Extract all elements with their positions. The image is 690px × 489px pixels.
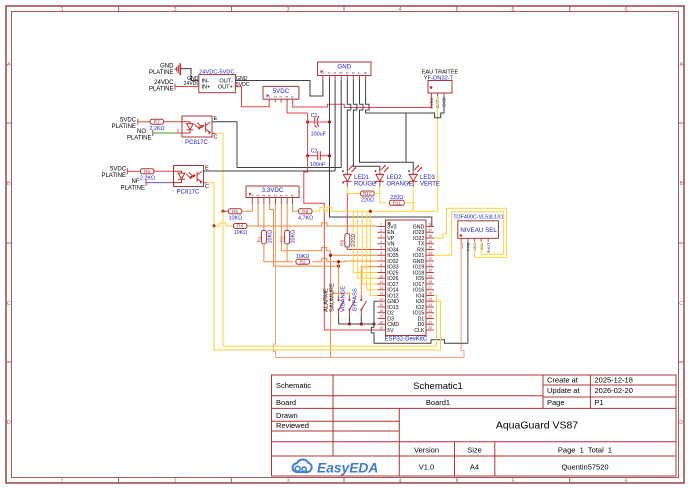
svg-text:1: 1 bbox=[60, 479, 63, 485]
wire EAU GND dark down and left bbox=[406, 97, 444, 163]
wire R7 to opto1 pin1 bbox=[164, 121, 183, 123]
svg-text:27: 27 bbox=[428, 286, 432, 290]
svg-text:31: 31 bbox=[428, 263, 432, 267]
wire yellow bus1 opto1 C to ESP IO4 bbox=[223, 211, 437, 346]
svg-text:37: 37 bbox=[428, 228, 432, 232]
optocoupler U2 PC817C bbox=[173, 166, 210, 196]
svg-text:E: E bbox=[214, 116, 218, 122]
svg-text:8: 8 bbox=[380, 263, 382, 267]
svg-text:NO: NO bbox=[137, 129, 146, 135]
svg-text:24: 24 bbox=[428, 303, 432, 307]
svg-text:17: 17 bbox=[379, 315, 383, 319]
svg-text:26: 26 bbox=[428, 292, 432, 296]
wire GND header pin8 to EAU GND line bbox=[366, 80, 406, 113]
frame row letters bbox=[7, 62, 684, 426]
svg-text:1: 1 bbox=[267, 96, 271, 98]
port 5VDC PLATINE upper bbox=[111, 118, 137, 131]
wire GND PLATINE to IN- bbox=[181, 69, 199, 81]
wire opto1 E to dark bus A bbox=[212, 121, 216, 123]
svg-text:1: 1 bbox=[60, 7, 63, 13]
svg-text:5: 5 bbox=[345, 72, 349, 74]
svg-text:SHUT: SHUT bbox=[486, 242, 491, 253]
svg-text:VIDANGE: VIDANGE bbox=[341, 286, 347, 312]
svg-text:Drawn: Drawn bbox=[276, 411, 298, 420]
svg-text:3: 3 bbox=[279, 96, 283, 98]
wire ESP IO22 to TOF SDA outer loop bbox=[434, 208, 507, 257]
svg-text:6: 6 bbox=[351, 72, 355, 74]
svg-text:38: 38 bbox=[428, 223, 432, 227]
svg-text:A4: A4 bbox=[470, 463, 479, 472]
svg-text:Reviewed: Reviewed bbox=[276, 421, 309, 430]
svg-text:6: 6 bbox=[380, 251, 382, 255]
svg-text:8: 8 bbox=[364, 72, 368, 74]
svg-text:3.3VDC: 3.3VDC bbox=[262, 187, 284, 194]
svg-text:5: 5 bbox=[291, 96, 295, 98]
svg-text:24VDC: 24VDC bbox=[154, 80, 174, 86]
svg-text:33: 33 bbox=[428, 251, 432, 255]
wire 24VDC PLATINE to IN+ bbox=[175, 86, 199, 88]
wire 3.3VDC pin5 down to 5V salmon bus bbox=[273, 204, 275, 358]
wire port to R7 bbox=[138, 121, 150, 123]
wire R5 right to 3.3VDC pin1 bbox=[242, 204, 253, 211]
svg-text:4: 4 bbox=[268, 195, 272, 197]
wire yellow staircase to ESP IO25 bbox=[353, 211, 377, 272]
junction C2 left bbox=[306, 154, 309, 157]
svg-text:PLATINE: PLATINE bbox=[101, 173, 126, 179]
wire switch ALARME riser bbox=[338, 262, 340, 300]
svg-text:3: 3 bbox=[262, 195, 266, 197]
LED3 VERTE bbox=[408, 165, 440, 188]
svg-text:Schematic1: Schematic1 bbox=[413, 381, 463, 392]
wire switch ground bus bbox=[339, 323, 374, 325]
svg-text:R11: R11 bbox=[393, 201, 402, 207]
svg-text:10KΩ: 10KΩ bbox=[234, 230, 248, 236]
junction pin4 chain with ALARME riser bbox=[337, 265, 340, 268]
svg-text:220Ω: 220Ω bbox=[361, 198, 374, 204]
svg-text:3: 3 bbox=[286, 479, 289, 485]
svg-text:220Ω: 220Ω bbox=[351, 234, 357, 247]
svg-text:1: 1 bbox=[380, 223, 382, 227]
ground flag GND PLATINE bbox=[175, 63, 180, 75]
svg-text:9: 9 bbox=[380, 269, 382, 273]
resistor R5 10K bbox=[223, 209, 242, 222]
wire GND header pin3 to dark bus B bbox=[334, 80, 336, 171]
wire GND header pin7 to LED3 bbox=[360, 80, 414, 171]
svg-text:GND: GND bbox=[160, 64, 174, 70]
capacitor C2 100nF bbox=[308, 149, 330, 168]
svg-text:2026-02-20: 2026-02-20 bbox=[595, 386, 633, 395]
wire 3.3VDC pin4 to orange trunk bbox=[270, 204, 339, 266]
svg-text:Board: Board bbox=[276, 398, 296, 407]
svg-text:28: 28 bbox=[428, 280, 432, 284]
wire LED1 to R9 red column bbox=[346, 187, 348, 194]
wire GND header pin6 to LED2 bbox=[353, 80, 379, 171]
svg-text:29: 29 bbox=[428, 274, 432, 278]
svg-text:34: 34 bbox=[428, 246, 432, 250]
wire OUT- dark to GND header pin1 bbox=[235, 80, 323, 96]
svg-text:3: 3 bbox=[286, 7, 289, 13]
svg-text:EAU TRAITÉE: EAU TRAITÉE bbox=[422, 69, 459, 76]
svg-text:NF: NF bbox=[132, 179, 140, 185]
svg-text:V1.0: V1.0 bbox=[419, 463, 434, 472]
svg-text:5VDC: 5VDC bbox=[429, 98, 434, 109]
resistor R8 4.7K bbox=[298, 209, 313, 222]
svg-text:Version: Version bbox=[414, 446, 439, 455]
svg-text:+: + bbox=[181, 117, 184, 122]
svg-text:12: 12 bbox=[379, 286, 383, 290]
svg-text:Schematic: Schematic bbox=[276, 381, 311, 390]
wire switch bus to ESP GND pin14 bbox=[371, 301, 377, 343]
svg-text:18: 18 bbox=[379, 320, 383, 324]
svg-text:ESP32-DevKitC: ESP32-DevKitC bbox=[384, 337, 427, 343]
wire orange trunk vertical bbox=[330, 251, 332, 358]
wire EAU DATA yellow down to signal bus bbox=[437, 97, 439, 212]
svg-text:6: 6 bbox=[624, 479, 627, 485]
wire yellow staircase to ESP IO12 bbox=[370, 211, 377, 295]
port NO PLATINE bbox=[127, 129, 153, 141]
svg-text:5VDC: 5VDC bbox=[120, 118, 137, 124]
svg-text:4: 4 bbox=[398, 479, 401, 485]
header J1 GND bbox=[318, 62, 372, 80]
resistor R6 2.2K bbox=[140, 169, 155, 182]
resistor R7 2.2K bbox=[149, 119, 164, 132]
svg-text:PC817C: PC817C bbox=[177, 190, 200, 196]
capacitor C1 100uF bbox=[308, 113, 330, 137]
resistor R10 220 bbox=[347, 191, 380, 204]
wire R3 bottom joins R2 line bbox=[286, 244, 288, 262]
wire R6 to opto2 pin1 bbox=[154, 170, 174, 172]
wire 3.3VDC pin6 to orange trunk bbox=[281, 204, 330, 251]
resistor R11 220 bbox=[389, 195, 413, 211]
junction C1 right bbox=[328, 120, 331, 123]
svg-text:5: 5 bbox=[511, 479, 514, 485]
svg-text:B: B bbox=[7, 181, 11, 187]
svg-text:4: 4 bbox=[285, 96, 289, 98]
EasyEDA logo bbox=[292, 460, 378, 476]
wire dark bus A horizontal bbox=[237, 167, 341, 169]
svg-text:R6: R6 bbox=[144, 169, 150, 175]
svg-text:2: 2 bbox=[273, 96, 277, 98]
wire R9 bottom to ESP IO34 bbox=[347, 247, 377, 249]
svg-text:1: 1 bbox=[321, 72, 325, 74]
wire NF PLATINE blue to opto2 pin2 bbox=[146, 182, 167, 184]
junction C2 right bbox=[328, 154, 331, 157]
horizontal inner lines bbox=[272, 395, 544, 397]
svg-text:A: A bbox=[7, 62, 11, 68]
wire opto1 C yellow down bbox=[212, 132, 216, 134]
svg-text:EasyEDA: EasyEDA bbox=[317, 461, 378, 476]
svg-text:VERTE: VERTE bbox=[420, 181, 440, 187]
wire OUT+ red to 5VDC header pin1 bbox=[235, 87, 269, 107]
junction C1 left bbox=[306, 120, 309, 123]
svg-text:5: 5 bbox=[511, 7, 514, 13]
wire opto2 E to dark bus B bbox=[204, 170, 208, 172]
svg-text:14: 14 bbox=[379, 297, 383, 301]
wire switch VIDANGE riser bbox=[331, 293, 350, 295]
svg-text:6: 6 bbox=[279, 195, 283, 197]
svg-text:2.2KΩ: 2.2KΩ bbox=[140, 176, 155, 182]
svg-text:7: 7 bbox=[380, 257, 382, 261]
svg-text:R9: R9 bbox=[340, 239, 346, 245]
wire LED2 to R11 bbox=[380, 187, 387, 203]
wire GND header pin5 to LED1 bbox=[347, 80, 351, 171]
svg-text:4: 4 bbox=[398, 7, 401, 13]
svg-text:6: 6 bbox=[624, 7, 627, 13]
svg-text:35: 35 bbox=[428, 240, 432, 244]
svg-text:23: 23 bbox=[428, 309, 432, 313]
svg-text:C: C bbox=[7, 301, 11, 307]
svg-text:C: C bbox=[214, 135, 218, 141]
svg-text:PLATINE: PLATINE bbox=[149, 70, 174, 76]
junction R4 left bbox=[212, 224, 215, 227]
svg-text:3: 3 bbox=[380, 234, 382, 238]
svg-text:5VDC: 5VDC bbox=[110, 167, 127, 173]
resistor R3 10K vertical bbox=[280, 204, 297, 244]
junction signal bus bbox=[369, 210, 372, 213]
svg-text:5: 5 bbox=[380, 246, 382, 250]
svg-text:D: D bbox=[7, 420, 11, 426]
wire NO PLATINE green to opto1 pin2 bbox=[153, 132, 175, 134]
junction switch bus 3 bbox=[372, 322, 375, 325]
switch S3 BYPASS bbox=[353, 288, 367, 324]
LED1 ROUGE bbox=[342, 165, 376, 188]
svg-text:A: A bbox=[679, 62, 683, 68]
svg-text:R5: R5 bbox=[232, 209, 238, 215]
svg-text:2: 2 bbox=[256, 195, 260, 197]
svg-text:NIVEAU SEL: NIVEAU SEL bbox=[460, 227, 497, 234]
svg-text:R4: R4 bbox=[237, 224, 243, 230]
svg-text:21: 21 bbox=[428, 320, 432, 324]
svg-text:ROUGE: ROUGE bbox=[354, 181, 376, 187]
wire R2 right to ESP IO32 bbox=[312, 258, 377, 261]
header J3 3.3VDC bbox=[246, 186, 299, 204]
wire switch BYPASS riser to ESP IO33 bbox=[361, 267, 377, 296]
wire R8 right yellow to signal bus with hop bbox=[312, 207, 370, 211]
svg-text:2: 2 bbox=[173, 7, 176, 13]
svg-text:16: 16 bbox=[379, 309, 383, 313]
svg-text:10KΩ: 10KΩ bbox=[268, 230, 274, 244]
wire yellow staircase to ESP IO14 bbox=[367, 211, 378, 289]
svg-text:PLATINE: PLATINE bbox=[149, 87, 174, 93]
svg-text:20: 20 bbox=[428, 326, 432, 330]
wire GND header pin4 to dark bus A bbox=[340, 80, 342, 168]
svg-text:PLATINE: PLATINE bbox=[127, 136, 152, 142]
svg-text:7: 7 bbox=[358, 72, 362, 74]
svg-text:C: C bbox=[205, 184, 209, 190]
svg-text:GND: GND bbox=[337, 64, 351, 71]
svg-text:2: 2 bbox=[173, 479, 176, 485]
svg-text:LED1: LED1 bbox=[354, 175, 370, 181]
svg-text:5: 5 bbox=[274, 195, 278, 197]
wire 3.3VDC pin8 to R8 bbox=[293, 204, 299, 211]
svg-text:Create at: Create at bbox=[547, 376, 579, 385]
svg-text:3: 3 bbox=[333, 72, 337, 74]
resistor R9 220 vertical bbox=[340, 234, 357, 248]
MCU U4 ESP32-DevKitC bbox=[378, 220, 435, 343]
svg-text:CLK: CLK bbox=[414, 328, 425, 334]
wire GND header pin2 down through caps right side bbox=[329, 80, 331, 171]
svg-text:Board1: Board1 bbox=[426, 398, 450, 407]
svg-text:25: 25 bbox=[428, 297, 432, 301]
wire R1 bottom to R2 left bbox=[264, 244, 293, 262]
resistor R1 10K vertical bbox=[256, 204, 273, 244]
svg-text:7: 7 bbox=[285, 195, 289, 197]
wire 5V red column down to ESP32 5V pin bbox=[304, 113, 378, 330]
svg-text:2: 2 bbox=[380, 228, 382, 232]
svg-text:2: 2 bbox=[328, 72, 332, 74]
svg-text:P1: P1 bbox=[595, 398, 604, 407]
wire ground to ESP pin38 GND bbox=[330, 171, 435, 227]
svg-text:2.2KΩ: 2.2KΩ bbox=[149, 126, 164, 132]
svg-text:19: 19 bbox=[379, 326, 383, 330]
TITLEBLOCK bbox=[272, 375, 677, 476]
resistor R2 10K bbox=[296, 254, 310, 266]
svg-text:2025-12-18: 2025-12-18 bbox=[595, 376, 633, 385]
svg-text:8: 8 bbox=[291, 195, 295, 197]
svg-text:C: C bbox=[679, 301, 683, 307]
wire TOF GND dark to ground bus bbox=[374, 242, 468, 344]
svg-text:D: D bbox=[679, 420, 683, 426]
switch S1 ALARME SAUMURE bbox=[324, 283, 344, 324]
svg-text:30: 30 bbox=[428, 269, 432, 273]
wire signal bus yellow to DATA column bbox=[370, 210, 437, 212]
svg-text:C1: C1 bbox=[311, 113, 318, 119]
svg-text:100uF: 100uF bbox=[311, 131, 327, 137]
wire yellow staircase to ESP IO27 bbox=[362, 211, 377, 284]
svg-text:5V: 5V bbox=[387, 328, 394, 334]
port 5VDC PLATINE lower bbox=[101, 167, 127, 180]
svg-text:Size: Size bbox=[467, 446, 482, 455]
svg-text:C2: C2 bbox=[311, 149, 318, 155]
svg-text:R3: R3 bbox=[280, 236, 286, 242]
port GND PLATINE bbox=[149, 64, 174, 77]
wire orange trunk branch to ESP IO35 bbox=[331, 254, 378, 256]
svg-text:4,7KΩ: 4,7KΩ bbox=[298, 216, 313, 222]
svg-text:100nF: 100nF bbox=[310, 162, 326, 168]
switch S2 VIDANGE bbox=[341, 286, 355, 324]
svg-text:SAUMURE: SAUMURE bbox=[330, 283, 336, 312]
wire 5VDC pin4 to C1 column bbox=[287, 103, 308, 114]
wire opto2 C yellow down bbox=[204, 182, 208, 184]
svg-text:PLATINE: PLATINE bbox=[111, 124, 136, 130]
optocoupler U1 PC817C bbox=[177, 116, 218, 146]
header J2 5VDC bbox=[263, 86, 299, 102]
svg-text:R10: R10 bbox=[363, 191, 372, 197]
svg-text:Quentin57520: Quentin57520 bbox=[561, 463, 608, 472]
svg-text:10KΩ: 10KΩ bbox=[291, 230, 297, 244]
port NF PLATINE bbox=[120, 179, 146, 191]
svg-text:11: 11 bbox=[379, 280, 383, 284]
svg-text:10KΩ: 10KΩ bbox=[228, 216, 242, 222]
junction switch bus 1 bbox=[348, 322, 351, 325]
junction switch bus 2 bbox=[360, 322, 363, 325]
svg-text:R8: R8 bbox=[302, 209, 308, 215]
wire yellow bus2 opto2 C to ESP IO0 bbox=[214, 226, 441, 350]
svg-text:36: 36 bbox=[428, 234, 432, 238]
junction orange trunk IO35 bbox=[329, 254, 332, 257]
svg-text:R7: R7 bbox=[154, 120, 160, 126]
resistor R4 10K bbox=[214, 223, 247, 236]
svg-text:10: 10 bbox=[379, 274, 383, 278]
wire LED3 down to signal bus bbox=[412, 187, 414, 212]
wire R4 right to 3.3VDC pin2 bbox=[247, 223, 378, 226]
LED2 ORANGE bbox=[375, 165, 413, 188]
wire TOF VIN salmon to 5V rail bbox=[276, 242, 465, 358]
svg-text:15: 15 bbox=[379, 303, 383, 307]
converter module U3 24VDC-5VDC bbox=[199, 70, 236, 93]
svg-text:AquaGuard VS87: AquaGuard VS87 bbox=[496, 420, 578, 432]
svg-text:R2: R2 bbox=[300, 259, 306, 265]
svg-text:B: B bbox=[679, 181, 683, 187]
svg-text:LED2: LED2 bbox=[387, 175, 403, 181]
svg-text:OUT+: OUT+ bbox=[218, 85, 233, 91]
svg-text:32: 32 bbox=[428, 257, 432, 261]
svg-text:+: + bbox=[173, 167, 176, 172]
svg-text:22: 22 bbox=[428, 315, 432, 319]
wire yellow staircase to ESP IO26 bbox=[358, 211, 378, 278]
svg-text:BYPASS: BYPASS bbox=[353, 288, 359, 311]
junction R5 left bbox=[221, 210, 224, 213]
svg-text:4: 4 bbox=[339, 72, 343, 74]
svg-text:LED3: LED3 bbox=[420, 175, 436, 181]
sensor U6 TOF400C-VL53L1X1 bbox=[453, 215, 504, 254]
svg-text:R1: R1 bbox=[256, 236, 262, 242]
junction R2 output bbox=[337, 260, 340, 263]
wire port to R6 bbox=[127, 170, 140, 172]
vertical inner lines bbox=[332, 375, 334, 456]
svg-text:IN+: IN+ bbox=[202, 85, 211, 91]
wire 5VDC pin5 to EAU TRAITEE 5VDC bbox=[293, 97, 432, 108]
svg-text:TOF400C-VL53L1X1: TOF400C-VL53L1X1 bbox=[453, 215, 504, 221]
svg-text:PC817C: PC817C bbox=[185, 140, 208, 146]
svg-text:Page 1 Total 1: Page 1 Total 1 bbox=[558, 446, 612, 455]
wire ESP IO21 to TOF SCL inner loop bbox=[434, 212, 504, 256]
sensor U5 EAU TRAITEE YF-DN32-T bbox=[422, 69, 459, 109]
svg-text:4: 4 bbox=[380, 240, 382, 244]
svg-text:5VDC: 5VDC bbox=[273, 88, 290, 95]
svg-text:PLATINE: PLATINE bbox=[120, 186, 145, 192]
svg-text:Page: Page bbox=[547, 398, 565, 407]
port 24VDC PLATINE bbox=[149, 80, 175, 93]
svg-text:13: 13 bbox=[379, 292, 383, 296]
svg-text:1: 1 bbox=[250, 195, 254, 197]
svg-text:Update at: Update at bbox=[547, 386, 580, 395]
